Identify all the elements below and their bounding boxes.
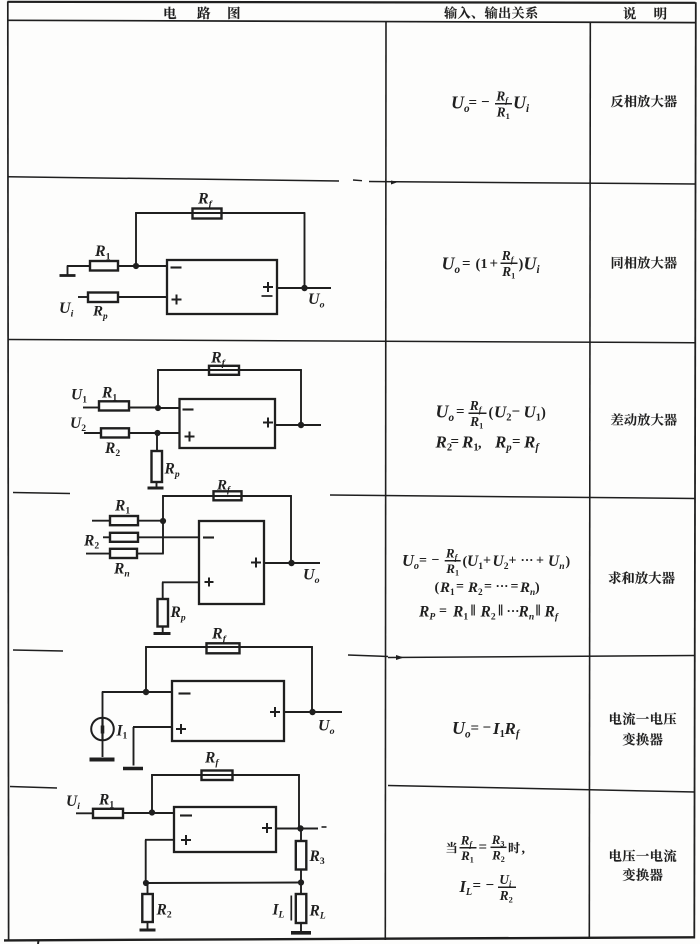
svg-text:Rf: Rf [197,191,214,210]
svg-text:Uo: Uo [308,291,325,310]
svg-text:Uo: Uo [452,718,471,740]
ground (row6 R2) [140,929,156,932]
op-amp U3 inverting input sign [183,408,194,410]
svg-text:Uo: Uo [436,402,455,424]
svg-text:Uo: Uo [318,718,335,737]
svg-text:=: = [473,878,482,894]
svg-text:R2: R2 [480,604,496,623]
svg-text:Ui: Ui [524,254,541,276]
svg-text:1: 1 [481,257,488,272]
ground (row3 Rp) [148,487,164,490]
wire R3 to node (row6) [300,870,302,883]
svg-text:−: − [481,95,490,111]
node inverting input (row2) [133,263,139,269]
svg-text:Uo: Uo [442,254,461,276]
svg-text:Ui: Ui [66,793,80,812]
resistor Rf (row2) [193,209,222,219]
svg-text:Ui: Ui [59,300,74,319]
svg-text:···: ··· [521,552,534,567]
svg-text:R1: R1 [461,433,479,454]
wire feedback left vertical (row6) [151,774,153,812]
op-amp U5 non-inverting input sign [176,724,186,734]
label 同相放大器 [612,257,623,269]
svg-text:=: = [456,404,465,420]
svg-text:+: + [509,554,517,569]
wire node to Rp (row3) [156,433,158,451]
svg-text:Ui: Ui [513,93,530,115]
node output (row5) [309,709,315,715]
svg-text:Rn: Rn [518,604,535,623]
svg-text:Rf: Rf [495,88,509,105]
op-amp U3 output plus sign [263,418,273,428]
wire R1 to node (row3) [129,407,158,409]
svg-text:Rf: Rf [504,719,521,740]
svg-text:): ) [535,581,540,596]
svg-text:Rf: Rf [445,545,459,562]
label 差动放大器 [611,413,623,425]
svg-text:Rf: Rf [501,248,515,265]
wire feedback top (row4) [162,495,292,497]
svg-text:Rf: Rf [216,478,231,496]
op-amp U3 non-inverting input sign [185,432,195,442]
header row line [8,20,695,22]
wire feedback left vertical (row5) [145,646,147,692]
svg-text:U2: U2 [70,415,86,434]
node inverting (row6) [149,809,155,815]
svg-text:U1: U1 [467,553,483,572]
resistor R2 (row3) [101,428,129,437]
svg-text:U1: U1 [524,403,542,424]
svg-text:Rf: Rf [523,433,540,454]
svg-text:‖: ‖ [498,603,503,620]
svg-text:I1: I1 [492,719,505,740]
wire R2 to op-amp (row4) [138,536,199,538]
current arrow IL (row6) [290,896,292,921]
column divider 2 [589,22,590,939]
wire output (row3) [275,424,321,426]
svg-text:R3: R3 [309,848,325,867]
wire non-inverting to ground (row5) [133,726,172,728]
ground (row5 non-inverting) [123,767,143,771]
wire non-inverting left (row6) [145,839,174,841]
svg-text:=: = [456,580,464,595]
svg-text:=: = [471,721,480,737]
svg-text:Rf: Rf [469,398,483,415]
formula row6: shi [509,842,520,853]
svg-text:=: = [479,840,488,856]
header: 说明 [623,7,636,20]
svg-text:−: − [432,553,440,568]
svg-text:=: = [451,434,460,450]
wire non-inverting to Rp (row4) [162,581,199,583]
wire R2 to op-amp (row3) [129,432,180,434]
svg-text:+: + [536,554,544,569]
label 电流-电压 变换器 [610,712,622,724]
row divider 2/3 [8,340,695,343]
formula row6 line1: dang Rf/R1 = R3/R2 shi, [460,847,477,849]
op-amp U6 output plus sign [262,823,272,833]
svg-text:I1: I1 [116,723,128,742]
node inverting (row4) [160,518,166,524]
node inverting (row5) [143,689,149,695]
wire Rp to ground (row3) [156,482,158,487]
svg-text:U1: U1 [71,387,87,406]
wire output (row2) [277,287,331,289]
svg-text:=: = [484,580,492,595]
wire feedback top (row6) [151,774,300,776]
resistor R1 (row2) [90,261,118,271]
row divider 3/4 (partially dashed) [13,493,70,494]
resistor R1 (row6) [93,809,123,818]
header: 输入、输出关系 [444,6,457,19]
svg-text:Rf: Rf [204,750,219,769]
op-amp U5 inverting input sign [179,692,191,694]
op-amp U6 inverting input sign [180,814,192,816]
table outer border left [7,2,10,941]
resistor Rp (row3) [152,451,163,482]
node inverting (row3) [155,405,161,411]
svg-text:−: − [512,404,521,420]
node bottom left (row6) [143,880,149,886]
svg-text:−: − [483,720,492,736]
node output Uo (row2) [301,285,307,291]
op-amp U2 [167,260,277,314]
op-amp U5 output plus sign [270,707,280,717]
resistor Rf (row3) [209,366,239,375]
wire feedback left vertical (row4) [162,495,164,521]
op-amp U3 [180,399,276,448]
wire U2 stub (row3) [84,432,101,434]
svg-text:Rn: Rn [519,580,535,598]
svg-text:R1: R1 [460,848,474,865]
svg-text:): ) [541,405,546,421]
formula row6: dang [446,842,456,853]
svg-text:=: = [419,554,427,569]
current source arrow (row5) [101,718,103,740]
wire feedback right vertical (row2) [304,212,306,288]
svg-text:=: = [469,95,478,111]
op-amp U4 output plus sign [251,558,261,568]
svg-text:Rf: Rf [460,832,474,849]
wire ground stub to R1 (row2) [67,265,90,267]
column divider 1 [384,21,387,940]
table outer border bottom [4,937,695,940]
svg-text:R2: R2 [467,580,483,598]
svg-text:R2: R2 [491,848,505,865]
wire R1 to op-amp (row6) [123,812,174,814]
svg-text:‖: ‖ [536,603,541,620]
svg-text:=: = [462,256,471,272]
wire R2 stub (row4) [103,536,110,538]
wire RL to ground (row6) [300,923,302,931]
wire U1 stub (row3) [83,407,99,409]
op-amp U6 [174,807,276,852]
svg-text:Rp: Rp [164,461,180,480]
svg-text:−: − [486,878,495,894]
svg-text:IL: IL [459,877,473,898]
wire source bottom (row5) [102,740,104,757]
svg-text:R1: R1 [452,604,468,623]
wire output (row5) [284,711,342,713]
svg-text:=: = [439,604,447,619]
header: 电路图 [164,6,666,19]
resistor Rf (row4) [214,491,242,500]
resistor Rp (row4) [158,599,169,627]
wire Rp to ground (row4) [162,627,164,633]
resistor Rn (row4) [110,549,137,558]
wire node to RL (row6) [300,883,302,895]
wire feedback right vertical (row6) [298,774,300,828]
op-amp U2 output plus sign [263,282,273,292]
svg-text:+: + [483,554,491,569]
svg-text:Rp: Rp [170,604,186,623]
resistor RL (row6) [296,894,307,923]
svg-text:Uo: Uo [303,567,320,586]
label 电压-电流 变换器 [610,849,622,861]
wire Ui stub (row6) [76,812,93,814]
svg-text:R2: R2 [156,902,172,921]
wire R2 to ground (row6) [147,922,149,929]
svg-text:=: = [511,580,519,595]
op-amp U4 inverting input sign [203,536,214,538]
node output (row6) [297,825,303,831]
resistor R1 (row4) [110,516,138,525]
svg-text:): ) [566,555,571,570]
wire output node to R3 (row6) [300,829,302,842]
resistor Rf (row5) [207,643,240,653]
ground (row6 RL) [291,931,311,935]
resistor Rf (row6) [202,771,233,781]
resistor R2 (row6) [142,894,153,922]
svg-text:U2: U2 [494,403,512,424]
scan artifact tick below bottom border [37,941,40,944]
svg-text:Rp: Rp [494,433,512,454]
ground (row5 source) [90,758,115,762]
svg-text:R2: R2 [435,433,453,454]
wire R1 stub (row4) [92,520,110,522]
stray output dash (row6) [322,826,327,828]
svg-text:RP: RP [418,604,435,623]
op-amp U2 inverting input sign [171,266,182,268]
row divider 1/2 [8,177,339,181]
op-amp U4 non-inverting input sign [205,578,214,587]
op-amp U5 [172,681,284,741]
svg-text:Ui: Ui [499,872,512,889]
wire source top vertical (row5) [102,692,104,718]
wire Rn to vertical (row4) [137,553,164,555]
svg-text:=: = [512,434,521,450]
wire output (row4) [264,562,320,564]
svg-text:+: + [490,256,499,272]
wire feedback right vertical (row4) [290,495,292,563]
node non-inverting (row3) [154,430,160,436]
table outer border right [694,2,696,938]
wire feedback left vertical (row3) [157,369,159,408]
wire Rp to op-amp (row2) [118,296,167,298]
ground (row4 Rp) [154,632,171,635]
wire node to R2 (row6) [147,883,149,894]
wire current source to op-amp (row5) [102,691,172,693]
wire feedback left vertical (row2) [135,212,137,266]
current source I1 (row5) [91,718,114,741]
svg-text:R2: R2 [104,440,120,459]
svg-text:‖: ‖ [471,603,476,620]
table outer border top [8,2,696,3]
svg-text:Rn: Rn [113,561,130,580]
row divider 5/6 (partially dashed) [10,787,57,789]
svg-text:R3: R3 [491,832,505,849]
wire vertical node join (row4) [162,521,164,554]
op-amp U2 output minus sign [262,295,273,297]
wire Rn stub (row4) [86,553,110,555]
wire R1 to op-amp (row2) [118,265,167,267]
svg-text:RL: RL [309,903,326,922]
wire feedback top (row5) [145,646,313,648]
op-amp U2 non-inverting input sign [172,295,182,305]
svg-text:R1: R1 [501,264,515,281]
resistor R2 (row4) [110,533,138,542]
svg-text:(: ( [489,405,494,421]
svg-text:···: ··· [496,578,509,593]
svg-text:Rp: Rp [92,304,108,322]
svg-text:Uo: Uo [402,551,419,572]
svg-text:U2: U2 [493,553,509,572]
wire node to op-amp (row3) [158,407,180,409]
wire feedback right vertical (row3) [300,369,302,425]
svg-text:R1: R1 [439,580,455,598]
wire feedback top (row3) [157,369,302,371]
wire bottom horizontal (row6) [146,882,301,885]
svg-text:R1: R1 [114,498,130,517]
wire feedback top (row2) [135,212,305,214]
wire R1 to node (row4) [138,520,163,522]
svg-text:Rf: Rf [211,626,228,645]
node R3/RL junction (row6) [298,879,304,885]
svg-text:R1: R1 [445,561,459,578]
svg-text:R2: R2 [83,533,99,552]
svg-text:Uo: Uo [451,93,470,115]
resistor R1 (row3) [99,401,129,410]
svg-text:,: , [478,437,482,452]
row divider 4/5 (partially dashed) [13,650,63,651]
wire feedback right vertical (row5) [311,646,313,712]
svg-text:R2: R2 [499,888,513,905]
node output (row3) [298,422,304,428]
wire output (row6) [276,828,318,830]
resistor Rp (row2) [88,293,118,303]
op-amp U6 non-inverting input sign [181,835,191,845]
svg-text:R1: R1 [496,104,510,121]
op-amp U4 [199,521,264,604]
svg-text:Un: Un [548,553,565,572]
svg-text:R1: R1 [469,414,483,431]
wire Ui to Rp (row2) [78,296,88,298]
svg-text:,: , [522,842,526,857]
ground (row2 R1) [67,266,69,275]
label 求和放大器 [609,571,621,584]
svg-text:R1: R1 [94,243,111,262]
svg-text:(: ( [435,581,440,596]
resistor R3 (row6) [296,841,307,870]
node output (row4) [288,560,294,566]
svg-text:IL: IL [272,902,285,921]
svg-text:Rf: Rf [544,604,559,623]
label 反相放大器 [611,95,624,107]
